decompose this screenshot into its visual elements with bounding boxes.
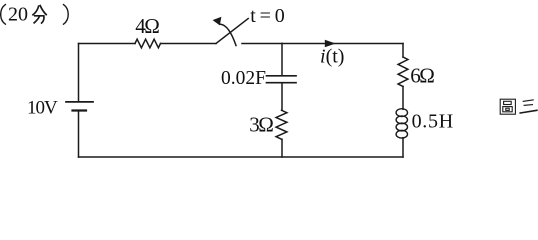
svg-text:0.5H: 0.5H <box>412 110 454 132</box>
wire from 4-ohm resistor to switch contact <box>161 43 217 45</box>
resistor R 4ohm <box>135 39 161 48</box>
wire left vertical lower (battery to bottom corner) <box>78 112 80 158</box>
svg-text:20: 20 <box>8 4 28 26</box>
svg-text:4Ω: 4Ω <box>135 14 159 38</box>
resistor R 6ohm <box>398 57 408 87</box>
svg-text:0.02F: 0.02F <box>221 68 266 89</box>
wire from capacitor node to top-right corner <box>282 43 403 45</box>
svg-text:6Ω: 6Ω <box>410 63 434 87</box>
label (20 分) right fullwidth paren <box>64 5 69 25</box>
current arrow i(t) on top wire <box>325 40 336 47</box>
switch arrow head <box>213 17 222 26</box>
wire left vertical upper (top corner to battery) <box>78 44 80 102</box>
svg-text:i(t): i(t) <box>320 46 344 68</box>
switch blade (open, t=0) <box>216 19 248 44</box>
svg-text:10V: 10V <box>27 98 58 119</box>
wire 3-ohm resistor to bottom wire <box>281 139 283 157</box>
resistor R 3ohm <box>276 110 287 139</box>
wire right vertical upper (corner to 6-ohm) <box>402 44 404 58</box>
label (20 分) char 分 <box>33 6 46 23</box>
wire 6-ohm to inductor <box>402 87 404 110</box>
label 圖三 char 圖 <box>500 99 515 114</box>
wire bottom horizontal <box>79 156 404 158</box>
capacitor C 0.02F <box>267 76 297 83</box>
label (20 分) left fullwidth paren <box>1 5 6 25</box>
wire from switch to capacitor-branch node <box>242 43 282 45</box>
wire top-left horizontal (battery to 4-ohm resistor) <box>79 43 136 45</box>
wire inductor to bottom-right corner <box>402 138 404 157</box>
svg-text:t=0: t=0 <box>250 5 288 27</box>
wire capacitor branch upper segment <box>281 44 283 76</box>
label 圖三 char 三 <box>520 100 537 113</box>
switch opening arc arrow <box>221 24 237 45</box>
wire capacitor to 3-ohm resistor <box>281 84 283 111</box>
battery V 10V short plate <box>73 109 87 111</box>
battery V 10V long plate <box>66 101 93 103</box>
inductor L 0.5H coil <box>396 109 407 138</box>
svg-text:3Ω: 3Ω <box>249 112 273 136</box>
